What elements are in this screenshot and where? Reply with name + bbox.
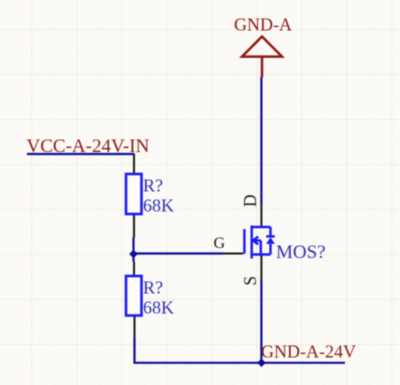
- svg-text:68K: 68K: [143, 298, 174, 318]
- svg-text:GND-A: GND-A: [234, 15, 292, 35]
- svg-text:VCC-A-24V-IN: VCC-A-24V-IN: [27, 136, 150, 157]
- svg-text:MOS?: MOS?: [276, 242, 326, 263]
- svg-text:S: S: [240, 276, 260, 286]
- svg-text:D: D: [240, 194, 260, 207]
- svg-text:R?: R?: [143, 176, 163, 196]
- svg-text:G: G: [214, 235, 226, 252]
- svg-text:68K: 68K: [143, 196, 174, 216]
- svg-text:R?: R?: [143, 278, 163, 298]
- svg-text:GND-A-24V: GND-A-24V: [261, 342, 356, 362]
